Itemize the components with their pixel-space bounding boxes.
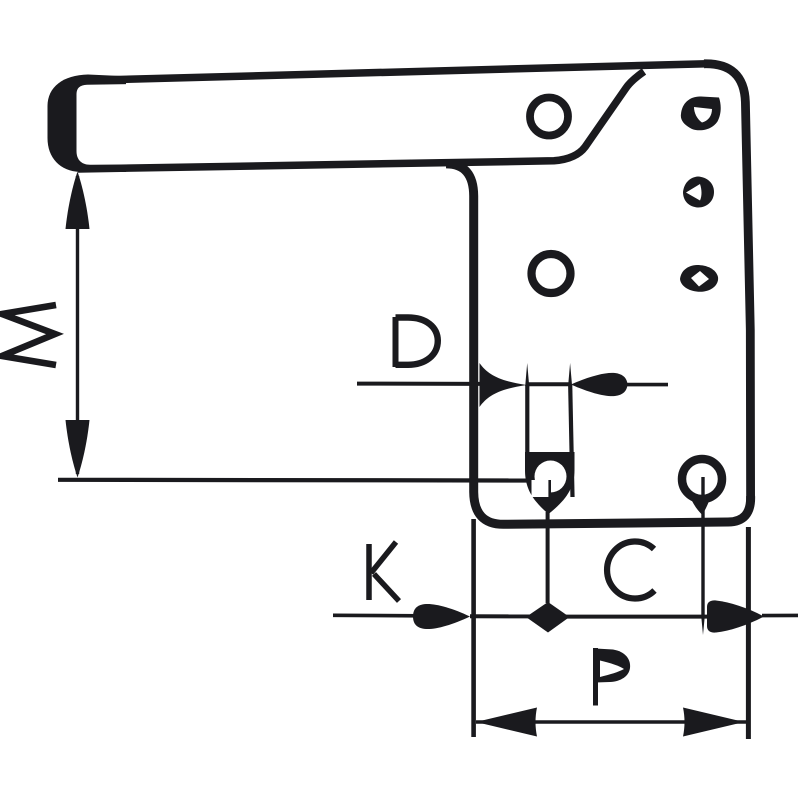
bottom-right hole (C hole) ring <box>682 459 722 499</box>
clamp bar bottom edge merging into plate diagonal chamfer <box>78 72 644 170</box>
dimension C line <box>566 615 710 619</box>
dimension K arrowhead (teardrop pointing right) <box>413 604 470 629</box>
dimension P line <box>476 720 746 724</box>
label C <box>607 541 654 598</box>
dimension M bottom arrowhead <box>66 420 90 478</box>
dimension D right tail line <box>624 383 668 387</box>
dimension D line left part <box>357 382 481 386</box>
round hole in plate (middle) <box>532 254 571 293</box>
round hole in bar (upper) <box>530 98 568 136</box>
extension line from slot centre to diamond <box>546 512 550 603</box>
dimension D crossbar between slot lines <box>527 382 570 386</box>
notch divider line <box>548 480 551 498</box>
dimension M vertical line <box>76 176 79 474</box>
shared diamond marker at slot centre <box>526 602 570 633</box>
dimension M top arrowhead <box>66 172 90 230</box>
dimension P left arrowhead <box>476 708 537 737</box>
slot left line <box>525 385 529 456</box>
label K <box>369 542 399 601</box>
mounting plate bottom edge, bottom corners and left edge with fillet to bar <box>446 164 751 524</box>
slot left extension spike above dimension line <box>525 363 529 386</box>
M reference line (bottom of bar height) <box>58 478 531 483</box>
dimension K line <box>333 613 420 617</box>
label M (rotated) <box>2 305 56 365</box>
small punched hole lower right <box>680 265 718 292</box>
dimension P right arrowhead <box>683 708 744 737</box>
dimension D left arrowhead (trumpet from plate edge) <box>480 363 527 407</box>
clamp bar left cap (thick rounded end) <box>48 75 141 173</box>
extension line from plate left edge down <box>471 519 476 737</box>
dimension line between K arrow and diamond <box>470 614 530 618</box>
slot end hole notch square <box>532 480 549 497</box>
small punched hole top right <box>681 96 721 130</box>
small punched hole middle right <box>683 177 714 208</box>
slot end hole blob <box>525 452 575 514</box>
mounting plate top-right corner and right edge <box>704 64 751 502</box>
dimension line right tail <box>762 614 798 618</box>
dimension D right arrowhead <box>571 373 628 396</box>
extension line from plate right edge down <box>746 527 751 739</box>
extension line from C hole centre <box>701 477 704 617</box>
C hole teardrop tip <box>688 493 712 515</box>
dimension C/K right arrowhead <box>707 600 764 632</box>
label P <box>596 648 631 706</box>
clamp bar top edge (continues into plate top) <box>80 64 712 81</box>
slot end hole inner <box>535 461 567 493</box>
C extension taper below dimension line <box>701 617 704 635</box>
label D <box>396 317 438 367</box>
slot right extension spike above dimension line <box>568 363 572 386</box>
slot right line <box>570 385 572 497</box>
